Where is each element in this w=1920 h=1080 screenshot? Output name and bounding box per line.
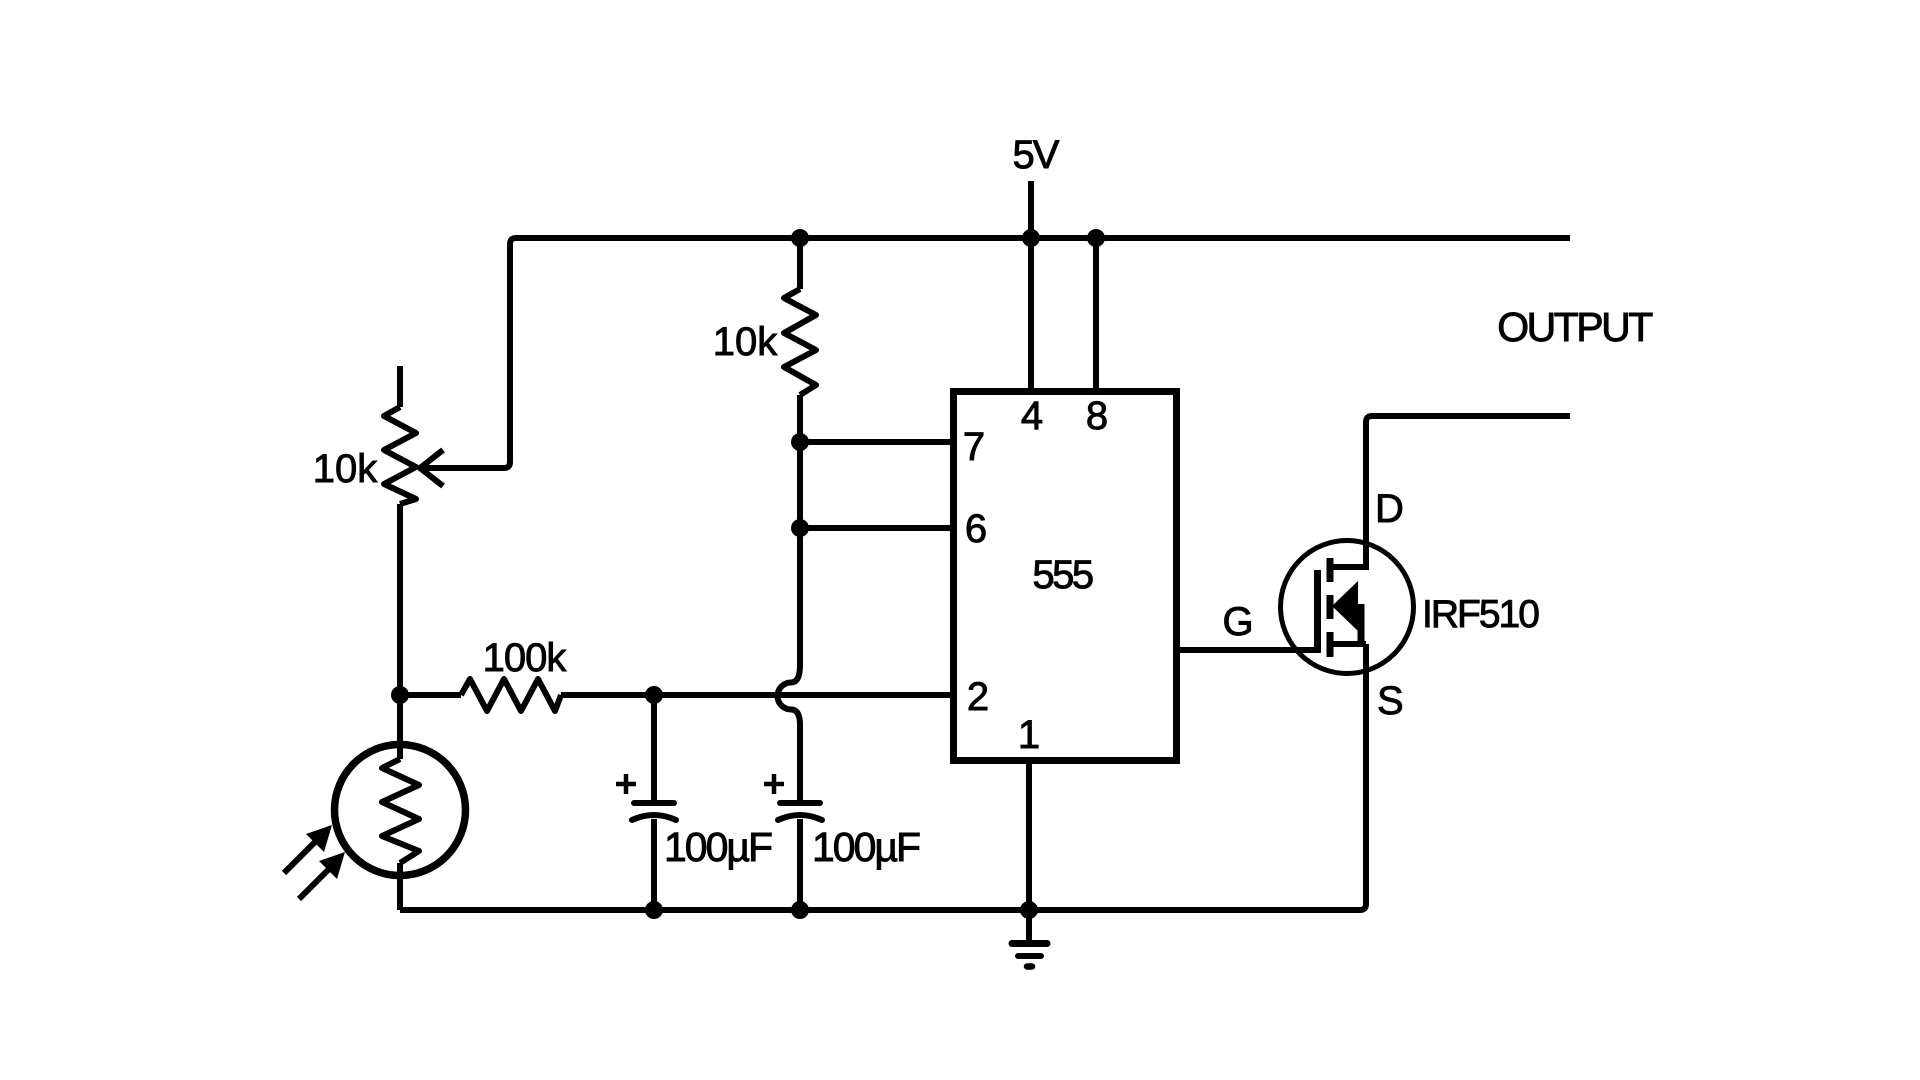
svg-text:10k: 10k bbox=[713, 320, 778, 364]
svg-text:D: D bbox=[1375, 487, 1404, 531]
svg-text:8: 8 bbox=[1086, 394, 1108, 438]
svg-text:OUTPUT: OUTPUT bbox=[1497, 304, 1653, 350]
svg-text:G: G bbox=[1222, 600, 1253, 644]
svg-text:7: 7 bbox=[963, 425, 985, 469]
svg-text:100µF: 100µF bbox=[812, 824, 920, 870]
svg-text:100k: 100k bbox=[483, 636, 568, 680]
svg-text:S: S bbox=[1377, 679, 1404, 723]
svg-text:4: 4 bbox=[1021, 394, 1043, 438]
svg-text:555: 555 bbox=[1032, 553, 1092, 597]
svg-text:2: 2 bbox=[967, 675, 989, 719]
svg-text:100µF: 100µF bbox=[664, 824, 772, 870]
svg-text:6: 6 bbox=[965, 507, 987, 551]
svg-text:1: 1 bbox=[1018, 713, 1040, 757]
svg-text:IRF510: IRF510 bbox=[1422, 593, 1539, 636]
svg-text:10k: 10k bbox=[313, 447, 378, 491]
svg-text:5V: 5V bbox=[1013, 133, 1060, 177]
